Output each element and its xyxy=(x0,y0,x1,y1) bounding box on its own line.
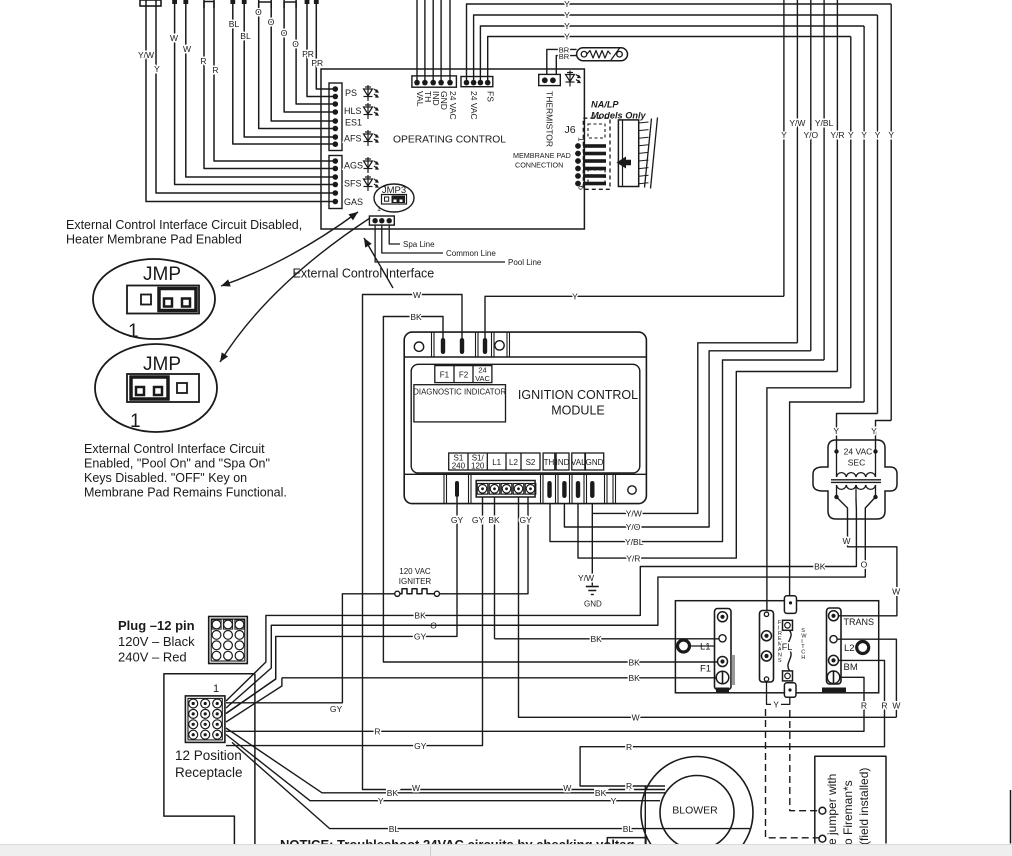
svg-text:1: 1 xyxy=(130,411,141,432)
operating control board outline xyxy=(321,69,584,229)
wire O to terminal y=104.0 xyxy=(296,0,335,104)
module bottom slot S1/240 xyxy=(455,481,459,497)
svg-text:BK: BK xyxy=(387,788,399,798)
svg-text:24 VAC: 24 VAC xyxy=(448,91,458,120)
svg-text:Y: Y xyxy=(154,64,160,74)
wire Y top run 2 xyxy=(474,15,878,80)
bus wire Y/W x=797.4 xyxy=(796,0,798,343)
module inner panel xyxy=(411,364,640,473)
wire loop O-O xyxy=(259,2,272,8)
wire Y bus to FL tab xyxy=(790,402,865,597)
connector shell fragment top left xyxy=(140,0,161,6)
wire W to terminal y=184.5 xyxy=(175,0,335,185)
svg-text:F1: F1 xyxy=(700,664,711,675)
wire Spa Line xyxy=(389,225,400,244)
bus wire Y/O x=810.8 xyxy=(810,0,812,351)
svg-text:F1: F1 xyxy=(440,371,450,380)
wire BR upper xyxy=(547,49,577,75)
fireman connection ring lower xyxy=(819,835,826,842)
ignition control module outline xyxy=(404,332,646,504)
wires VAL..24VAC to top edge xyxy=(416,0,418,80)
small box bottom xyxy=(607,838,646,844)
svg-text:Y: Y xyxy=(773,700,779,710)
arrow from text to interface header xyxy=(364,238,393,288)
wire O to terminal y=121.0 xyxy=(271,0,335,121)
wire Common Line xyxy=(382,225,443,253)
wire BK to F1 middle circle xyxy=(495,638,719,640)
FL fuse link xyxy=(783,620,793,630)
svg-text:Y/R: Y/R xyxy=(830,130,844,140)
wire GY S1/240 to receptacle staircase xyxy=(226,497,457,714)
svg-text:W: W xyxy=(412,783,420,793)
wire Y/O IND pin to bus xyxy=(564,351,810,527)
svg-text:Y/W: Y/W xyxy=(138,50,154,60)
wire loop O-O second xyxy=(284,2,296,8)
chassis outline xyxy=(164,674,255,844)
transformer core bars xyxy=(831,479,881,481)
svg-text:120: 120 xyxy=(471,462,485,471)
wire Y top run 3 xyxy=(480,26,864,80)
svg-text:Pool Line: Pool Line xyxy=(508,258,542,267)
svg-text:MEMBRANE PAD: MEMBRANE PAD xyxy=(513,151,571,160)
svg-text:JMP: JMP xyxy=(143,264,181,285)
svg-text:External Control Interface Cir: External Control Interface Circuit xyxy=(84,442,265,456)
fireman connection ring upper xyxy=(819,807,826,814)
wire W to terminal y=177.0 xyxy=(186,0,335,177)
bus wire Y x=891.2 xyxy=(890,4,892,421)
svg-text:VAC: VAC xyxy=(475,374,490,383)
relay panel outline xyxy=(675,601,878,693)
svg-text:MODULE: MODULE xyxy=(551,404,604,418)
svg-text:Y: Y xyxy=(871,426,877,436)
svg-text:W: W xyxy=(842,536,850,546)
diagnostic indicator box xyxy=(414,385,506,422)
svg-text:BK: BK xyxy=(629,658,641,668)
relay strip TRANS xyxy=(827,608,842,684)
igniter element xyxy=(395,591,400,596)
firemans strip xyxy=(760,611,774,683)
LED indicator HLS xyxy=(364,103,379,119)
svg-text:R: R xyxy=(626,781,632,791)
svg-text:GY: GY xyxy=(414,741,427,751)
fuse strip F1 xyxy=(715,609,732,690)
svg-text:BL: BL xyxy=(240,31,251,41)
svg-text:BK: BK xyxy=(595,788,607,798)
svg-text:Y/W: Y/W xyxy=(578,573,594,583)
terminal cells TH IND VAL GND xyxy=(543,453,555,470)
LED indicator AGS xyxy=(364,157,379,173)
svg-text:VAL: VAL xyxy=(571,458,586,467)
svg-text:(field installed): (field installed) xyxy=(857,768,871,845)
svg-text:1: 1 xyxy=(377,206,381,213)
wire GY block c4 to W run xyxy=(519,497,897,717)
header 24VAC/FS xyxy=(461,77,493,87)
transformer output O xyxy=(271,497,875,625)
wire PR to terminal y=96.5 xyxy=(307,0,335,97)
dashed jumper wire right xyxy=(790,710,819,811)
module mounting hole bottom right xyxy=(628,486,636,494)
wire BK module pin to relay F1 xyxy=(383,317,717,663)
svg-text:R: R xyxy=(881,700,887,710)
wire Y/W GND pin to bus xyxy=(592,343,797,514)
svg-text:Y/O: Y/O xyxy=(626,522,641,532)
svg-text:IND: IND xyxy=(556,458,570,467)
svg-text:Y: Y xyxy=(564,10,570,20)
svg-text:W: W xyxy=(892,700,900,710)
svg-text:AFS: AFS xyxy=(344,134,362,144)
svg-text:External Control Interface: External Control Interface xyxy=(293,267,435,281)
wire vertical at blower left xyxy=(644,786,646,844)
bus wire Y x=877.5 xyxy=(877,15,879,414)
wire BK lower to F1 screw xyxy=(282,677,716,679)
svg-text:BLOWER: BLOWER xyxy=(672,805,718,817)
svg-text:1: 1 xyxy=(577,137,586,142)
svg-text:Y: Y xyxy=(833,426,839,436)
svg-text:BK: BK xyxy=(591,634,603,644)
J6 pins xyxy=(575,143,581,149)
svg-text:GY: GY xyxy=(414,632,427,642)
membrane ribbon cable xyxy=(618,120,638,187)
svg-text:O: O xyxy=(292,39,299,49)
wire Y/BL TH pin to bus xyxy=(550,360,824,542)
svg-text:Y/BL: Y/BL xyxy=(625,537,644,547)
svg-text:Y/W: Y/W xyxy=(789,118,805,128)
wire Y/W to terminal y=201.5 xyxy=(146,0,335,202)
svg-text:240V – Red: 240V – Red xyxy=(118,650,187,665)
svg-text:1: 1 xyxy=(213,683,219,695)
ground symbol xyxy=(586,586,599,588)
wire R TRANS screw to receptacle run xyxy=(226,677,864,731)
svg-text:W: W xyxy=(563,783,571,793)
svg-text:BK: BK xyxy=(414,611,426,621)
arrow to lower bubble xyxy=(220,218,370,362)
svg-text:J6: J6 xyxy=(564,124,575,136)
svg-text:GY: GY xyxy=(451,515,464,525)
svg-text:BL: BL xyxy=(389,824,400,834)
svg-text:Y: Y xyxy=(564,32,570,42)
bus wire Y x=864.1 xyxy=(863,26,865,402)
svg-text:Common Line: Common Line xyxy=(446,249,496,258)
transformer primary winding xyxy=(836,452,838,470)
wire Y top run 1 xyxy=(467,4,892,80)
svg-text:FS: FS xyxy=(486,91,496,102)
wire igniter right to terminal block xyxy=(440,497,529,594)
transformer terminal dots xyxy=(834,449,838,453)
module mounting hole top mid xyxy=(495,341,504,350)
svg-text:GY: GY xyxy=(330,704,343,714)
svg-text:SEC: SEC xyxy=(848,458,865,468)
svg-text:Models Only: Models Only xyxy=(591,111,647,121)
wire L1 ring to strip xyxy=(690,645,715,647)
svg-text:R: R xyxy=(374,727,380,737)
svg-text:GY: GY xyxy=(472,515,485,525)
FL bottom tab xyxy=(784,683,796,698)
svg-text:R: R xyxy=(212,65,218,75)
svg-text:OPERATING CONTROL: OPERATING CONTROL xyxy=(393,135,506,146)
svg-text:120 VAC: 120 VAC xyxy=(399,567,431,576)
svg-text:CONNECTION: CONNECTION xyxy=(515,161,563,170)
svg-text:Y/W: Y/W xyxy=(626,509,642,519)
5 position terminal block xyxy=(476,481,535,498)
svg-text:Receptacle: Receptacle xyxy=(175,765,243,780)
svg-text:240: 240 xyxy=(452,462,466,471)
module mounting hole top left xyxy=(414,342,423,351)
left harness wire bus to operating control xyxy=(138,0,335,202)
thermistor bulb symbol xyxy=(577,48,628,61)
svg-text:BL: BL xyxy=(229,19,240,29)
svg-text:Y: Y xyxy=(781,130,787,140)
svg-text:24 VAC: 24 VAC xyxy=(844,447,873,457)
plug 12 pin connector xyxy=(209,617,248,664)
transformer 24VAC SEC outline xyxy=(813,440,897,519)
svg-text:L2: L2 xyxy=(844,643,855,654)
wire O to terminal y=112.0 xyxy=(284,0,335,112)
wire BL to terminal y=137.0 xyxy=(244,0,335,137)
svg-text:L1: L1 xyxy=(700,642,711,653)
terminal L1 ring xyxy=(678,640,690,652)
wire BK receptacle to F1 screw xyxy=(226,678,282,722)
wire BL to terminal y=144.0 xyxy=(233,0,335,144)
svg-text:12 Position: 12 Position xyxy=(175,748,242,763)
membrane pad connector (dashed) xyxy=(583,118,610,189)
wire W module top to bottom run xyxy=(363,295,666,790)
terminal strip S1/240 S1/120 L1 L2 S2 xyxy=(449,453,540,470)
bottom grey bar xyxy=(0,845,1012,856)
svg-text:TRANS: TRANS xyxy=(844,617,875,627)
blower inner circle xyxy=(660,776,734,850)
wire GY receptacle staircase xyxy=(226,637,276,713)
bus wire Y x=783.9 xyxy=(783,0,785,296)
svg-text:Keys Disabled. "OFF" Key on: Keys Disabled. "OFF" Key on xyxy=(84,471,247,485)
wire O to terminal y=128.5 xyxy=(259,0,335,129)
wire Y receptacle to blower xyxy=(226,735,660,801)
thermistor header xyxy=(539,74,561,85)
module bottom slots TH IND VAL GND xyxy=(547,481,551,498)
svg-text:W: W xyxy=(183,44,191,54)
svg-text:L1: L1 xyxy=(492,458,501,467)
wire GY block c1 down to GY run xyxy=(226,497,483,746)
svg-text:W: W xyxy=(892,586,900,596)
svg-text:HLS: HLS xyxy=(344,106,362,116)
JMP3 jumper icon xyxy=(382,195,407,205)
svg-text:W: W xyxy=(413,290,421,300)
terminal L2 ring xyxy=(857,642,869,654)
svg-text:Y/BL: Y/BL xyxy=(815,118,834,128)
svg-text:R: R xyxy=(626,742,632,752)
svg-text:S2: S2 xyxy=(526,458,536,467)
svg-text:BK: BK xyxy=(410,312,422,322)
wire R to terminal y=168.5 xyxy=(204,0,335,169)
svg-text:PR: PR xyxy=(311,58,323,68)
wire Y bus to transformer left xyxy=(837,414,878,452)
svg-text:e jumper with: e jumper with xyxy=(825,774,839,845)
svg-text:R: R xyxy=(861,700,867,710)
bus wire Y/R x=837.4 xyxy=(836,0,838,372)
svg-text:O: O xyxy=(255,7,262,17)
12 position receptacle connector xyxy=(185,696,225,743)
svg-text:Y: Y xyxy=(861,130,867,140)
svg-text:W: W xyxy=(632,713,640,723)
wire BK receptacle to blower xyxy=(226,728,665,793)
svg-text:BL: BL xyxy=(623,824,634,834)
svg-text:Membrane Pad Remains Functiona: Membrane Pad Remains Functional. xyxy=(84,486,287,500)
wire loop R-R xyxy=(204,2,214,9)
LED indicator thermistor xyxy=(566,71,581,87)
arrow from bubble to JMP3 xyxy=(221,212,358,286)
transformer secondary winding xyxy=(837,485,876,489)
box edge at page right xyxy=(1010,790,1012,844)
wire end caps at top edge xyxy=(172,0,177,4)
svg-text:TH: TH xyxy=(544,458,555,467)
svg-text:Y: Y xyxy=(611,796,617,806)
jumper JMP3 ellipse xyxy=(374,184,414,212)
svg-text:Heater Membrane Pad Enabled: Heater Membrane Pad Enabled xyxy=(66,233,242,247)
svg-text:L2: L2 xyxy=(509,458,518,467)
wire Pool Line xyxy=(375,225,505,262)
svg-text:Y: Y xyxy=(378,796,384,806)
svg-text:1: 1 xyxy=(128,321,139,342)
jumper detail bubble JMP position 2-3 xyxy=(93,259,215,339)
svg-text:O: O xyxy=(268,17,275,27)
external control interface header xyxy=(369,216,394,225)
wire R to terminal y=161.0 xyxy=(214,0,335,161)
svg-text:Plug –12 pin: Plug –12 pin xyxy=(118,618,195,633)
svg-text:SFS: SFS xyxy=(344,179,362,189)
F1 F2 24VAC indicator cells xyxy=(435,366,492,383)
svg-text:ES1: ES1 xyxy=(345,118,362,128)
wire Y/R VAL pin to bus xyxy=(578,372,837,559)
wire BK receptacle to transformer run xyxy=(226,615,383,701)
svg-text:Y: Y xyxy=(875,130,881,140)
wire BR lower xyxy=(556,56,576,75)
svg-text:Y/O: Y/O xyxy=(803,130,818,140)
transformer output BK centre tap xyxy=(383,499,856,615)
chassis edge vertical xyxy=(254,674,256,844)
svg-text:120V – Black: 120V – Black xyxy=(118,634,195,649)
wire Y bus to transformer right xyxy=(876,421,892,452)
svg-text:FL: FL xyxy=(782,642,793,652)
transformer output W xyxy=(837,497,897,616)
svg-text:GY: GY xyxy=(519,515,532,525)
svg-text:Y: Y xyxy=(572,292,578,302)
svg-text:Spa Line: Spa Line xyxy=(403,240,435,249)
svg-text:BK: BK xyxy=(814,562,826,572)
membrane cable arrow xyxy=(617,157,632,169)
FL top tab xyxy=(784,596,796,614)
svg-text:External Control Interface Cir: External Control Interface Circuit Disab… xyxy=(66,218,302,232)
svg-text:Y: Y xyxy=(564,21,570,31)
connector header PS/HLS/ES1/AFS xyxy=(329,83,342,151)
svg-text:GND: GND xyxy=(439,91,449,110)
wire BK block c2 down to relay feed xyxy=(494,497,496,639)
wire R BM to blower run xyxy=(580,660,884,786)
svg-text:W: W xyxy=(170,33,178,43)
svg-text:GND: GND xyxy=(584,600,602,609)
LED indicator SFS xyxy=(364,175,379,191)
svg-text:IGNITER: IGNITER xyxy=(399,577,432,586)
svg-text:O: O xyxy=(281,28,288,38)
svg-text:Y: Y xyxy=(888,130,894,140)
header VAL/TH/IND/GND/24VAC xyxy=(412,76,457,87)
wire O receptacle to transformer run xyxy=(226,625,658,708)
jumper detail bubble JMP position 1-2 xyxy=(95,344,217,432)
wire Y firemans to FL bottom bracket xyxy=(767,682,772,705)
wire Y bus to firemans strip xyxy=(767,388,851,611)
fireman jumper note box xyxy=(815,756,886,843)
svg-text:NA/LP: NA/LP xyxy=(591,100,619,110)
svg-text:AGS: AGS xyxy=(344,161,363,171)
svg-text:Enabled, "Pool On" and "Spa On: Enabled, "Pool On" and "Spa On" xyxy=(84,457,270,471)
dashed jumper wire left xyxy=(766,709,819,838)
svg-text:Y: Y xyxy=(564,0,570,9)
wire igniter left to receptacle (GY) xyxy=(226,594,395,703)
connector header AGS/SFS/GAS xyxy=(329,156,342,209)
svg-text:Y/R: Y/R xyxy=(626,553,640,563)
svg-text:R: R xyxy=(200,56,206,66)
svg-text:BM: BM xyxy=(844,662,858,673)
svg-text:24 VAC: 24 VAC xyxy=(469,91,479,120)
svg-text:o Fireman*s: o Fireman*s xyxy=(841,780,855,845)
svg-text:BR: BR xyxy=(559,52,570,61)
module top pins xyxy=(441,338,445,354)
svg-text:GND: GND xyxy=(586,458,604,467)
svg-text:IGNITION CONTROL: IGNITION CONTROL xyxy=(518,388,638,402)
svg-text:JMP: JMP xyxy=(143,354,181,375)
bus wire Y x=850.8 xyxy=(850,37,852,388)
LED indicator AFS xyxy=(364,130,379,146)
wire Y/W to ground xyxy=(591,513,593,585)
svg-text:DIAGNOSTIC INDICATOR: DIAGNOSTIC INDICATOR xyxy=(413,388,506,397)
blower outer circle xyxy=(641,757,753,856)
svg-text:Y: Y xyxy=(848,130,854,140)
svg-text:PS: PS xyxy=(345,88,357,98)
wire Y top run 4 xyxy=(488,37,851,81)
svg-text:O: O xyxy=(861,560,868,570)
wire Y to terminal y=193.0 xyxy=(156,0,335,193)
wire PR to terminal y=89.0 xyxy=(316,0,335,89)
wire BL receptacle to right xyxy=(232,742,751,828)
wire W TRANS mid to bottom-left run xyxy=(837,639,896,717)
svg-text:BK: BK xyxy=(488,515,500,525)
wire Y module to bus xyxy=(485,296,784,340)
svg-text:THERMISTOR: THERMISTOR xyxy=(544,91,554,147)
svg-text:BK: BK xyxy=(629,673,641,683)
svg-text:F2: F2 xyxy=(459,371,469,380)
LED indicator PS xyxy=(364,85,379,101)
bus wire Y/BL x=824.1 xyxy=(823,0,825,360)
svg-text:GAS: GAS xyxy=(344,197,363,207)
